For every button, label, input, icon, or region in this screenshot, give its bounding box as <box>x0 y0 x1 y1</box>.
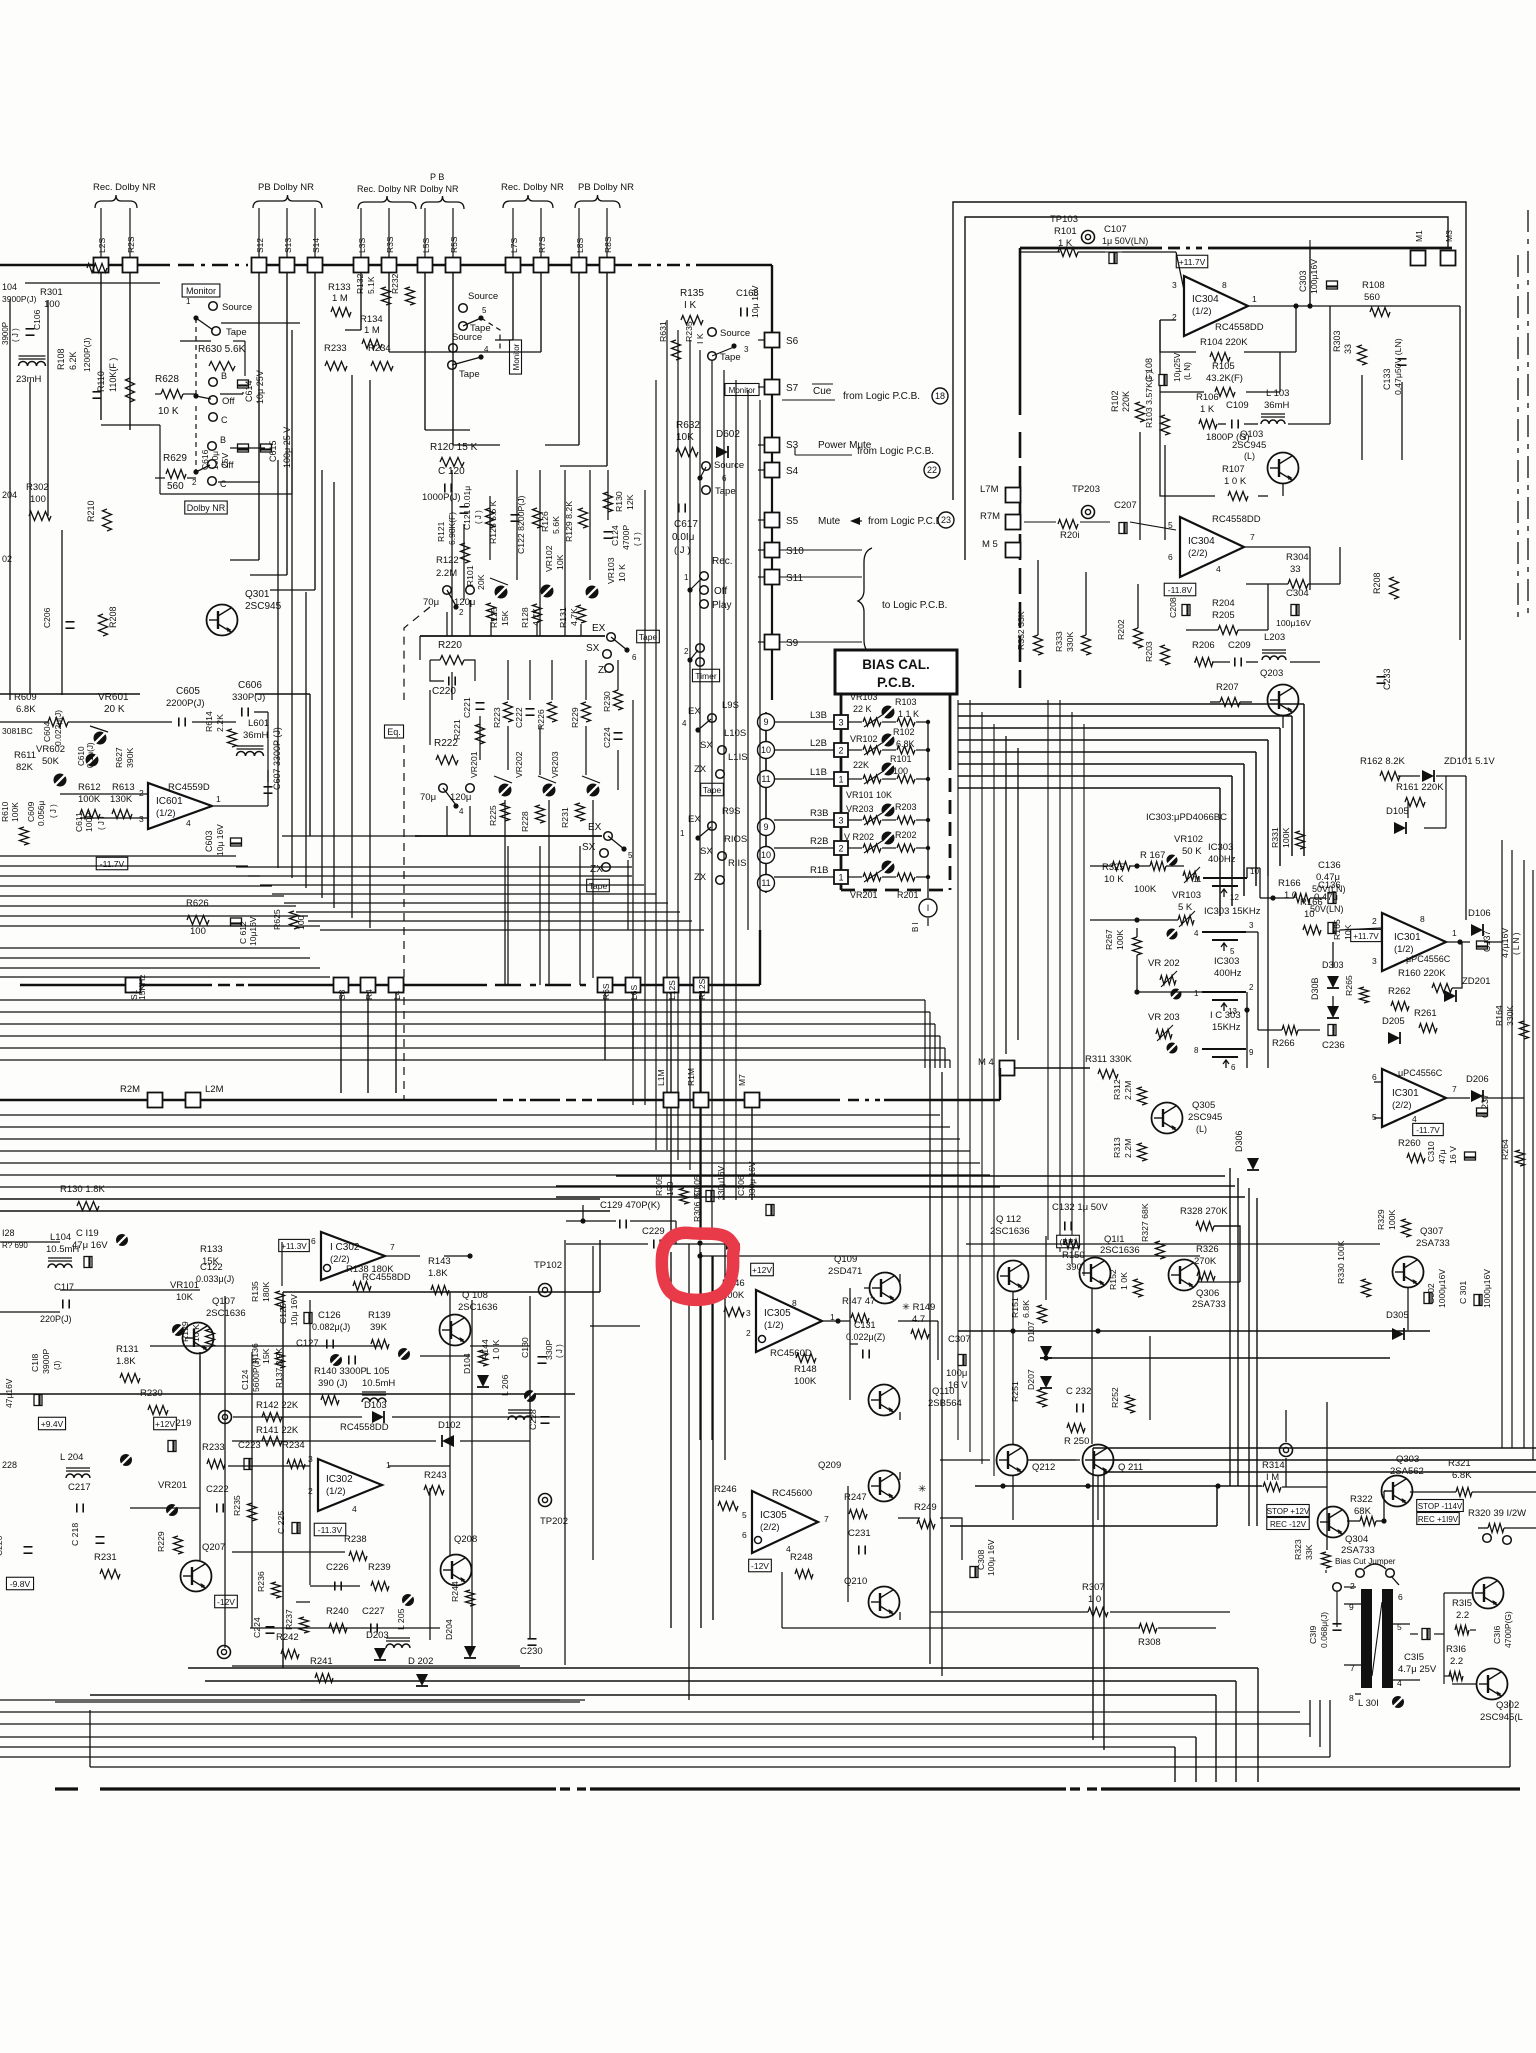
svg-text:Dolby NR: Dolby NR <box>420 184 459 194</box>
svg-text:R139: R139 <box>368 1310 391 1321</box>
svg-text:8: 8 <box>1194 1046 1199 1055</box>
svg-text:2SC945: 2SC945 <box>1188 1112 1222 1123</box>
svg-text:4.7: 4.7 <box>912 1314 925 1325</box>
svg-text:R5S: R5S <box>449 236 459 253</box>
transistor Q111 <box>1080 1258 1111 1289</box>
svg-text:L5S: L5S <box>421 238 431 253</box>
svg-text:4700P(G): 4700P(G) <box>1503 1611 1513 1648</box>
wire eq bus1 to eq bus2 <box>419 636 421 660</box>
wire q2xx emitter bus <box>975 1485 1262 1487</box>
svg-text:M 4: M 4 <box>978 1057 994 1068</box>
svg-text:3: 3 <box>838 816 843 826</box>
svg-text:P B: P B <box>430 172 444 182</box>
wire l9s col <box>765 712 767 893</box>
svg-text:330K: 330K <box>1065 632 1075 652</box>
resistor R row R1B <box>897 873 915 881</box>
capacitor C615 <box>261 444 272 452</box>
svg-text:Cue: Cue <box>813 386 832 397</box>
svg-text:L2S: L2S <box>97 238 107 253</box>
svg-text:( J ): ( J ) <box>474 510 483 524</box>
opamp IC304a <box>1184 276 1248 336</box>
svg-text:100μ16V: 100μ16V <box>1276 618 1311 628</box>
analog switch 3 <box>1202 991 1246 993</box>
wire stub L2S <box>100 208 102 257</box>
opamp IC304b <box>1180 517 1244 577</box>
svg-text:R239: R239 <box>368 1562 391 1573</box>
svg-text:I K: I K <box>684 300 697 311</box>
switch connector R2S <box>123 258 138 273</box>
wire bus row1 <box>20 984 212 986</box>
switch connector M4 <box>1000 1061 1015 1076</box>
wire ic601 out <box>214 805 268 807</box>
svg-text:IC305: IC305 <box>764 1308 791 1319</box>
svg-text:3: 3 <box>1249 921 1254 930</box>
svg-text:R135: R135 <box>250 1281 260 1302</box>
svg-text:R105: R105 <box>1212 361 1235 372</box>
wire r142 row <box>233 1416 362 1418</box>
svg-text:33K: 33K <box>1304 1544 1314 1560</box>
svg-text:6.8K: 6.8K <box>1021 1300 1031 1318</box>
wire right edge dash vertical 2 <box>1517 255 1519 620</box>
svg-text:R630 5.6K: R630 5.6K <box>198 344 246 355</box>
svg-text:R222: R222 <box>434 738 458 749</box>
switch connector S5 <box>765 513 780 528</box>
svg-text:R311 330K: R311 330K <box>1085 1054 1132 1065</box>
svg-text:C124: C124 <box>240 1369 250 1390</box>
svg-text:M3: M3 <box>1444 230 1454 242</box>
svg-text:(L N): (L N) <box>1183 362 1192 380</box>
box -11.7V ic601 <box>96 857 128 870</box>
svg-text:C605: C605 <box>176 686 200 697</box>
svg-text:2.2M: 2.2M <box>1123 1139 1133 1158</box>
svg-text:Q306: Q306 <box>1196 1288 1219 1299</box>
svg-text:R312: R312 <box>1112 1079 1122 1100</box>
svg-text:Tape: Tape <box>459 369 480 380</box>
pot VR row L2B <box>863 746 881 754</box>
svg-text:R102: R102 <box>893 727 915 737</box>
svg-text:Source: Source <box>720 328 750 339</box>
svg-text:(1/2): (1/2) <box>764 1320 784 1331</box>
svg-text:(2/2): (2/2) <box>1188 548 1208 559</box>
switch connector L5S <box>418 258 433 273</box>
svg-text:C 218: C 218 <box>70 1523 80 1546</box>
svg-text:STOP +12V: STOP +12V <box>1267 1507 1310 1516</box>
svg-text:0.47μ: 0.47μ <box>1314 892 1338 903</box>
wire ic304a fb <box>1100 251 1160 253</box>
svg-text:5.6K: 5.6K <box>551 516 561 534</box>
wire right bus vertical <box>1019 248 1022 415</box>
wire bus row1 corner <box>759 930 761 985</box>
svg-text:560: 560 <box>167 481 184 492</box>
wire midleft verticals <box>277 460 279 868</box>
svg-text:10μ 16V: 10μ 16V <box>750 285 760 318</box>
svg-text:Source: Source <box>468 291 498 302</box>
svg-text:R232: R232 <box>390 273 400 294</box>
svg-text:1000P(J): 1000P(J) <box>422 492 461 503</box>
svg-text:2: 2 <box>746 1328 751 1338</box>
svg-text:8: 8 <box>1349 1693 1354 1703</box>
svg-text:Q304: Q304 <box>1345 1534 1368 1545</box>
svg-text:L7S: L7S <box>509 238 519 253</box>
svg-text:47μ16V: 47μ16V <box>4 1378 14 1408</box>
svg-text:R266: R266 <box>1272 1038 1295 1049</box>
svg-text:-12V: -12V <box>751 1561 769 1571</box>
capacitor C308 <box>970 1567 978 1578</box>
svg-text:1: 1 <box>1452 928 1457 938</box>
svg-text:S14: S14 <box>311 238 321 253</box>
svg-text:C129 470P(K): C129 470P(K) <box>600 1200 660 1211</box>
svg-text:IC305: IC305 <box>760 1510 787 1521</box>
svg-text:D103: D103 <box>364 1400 387 1411</box>
svg-text:S7: S7 <box>786 383 799 394</box>
svg-text:Monitor: Monitor <box>512 343 521 370</box>
svg-text:R243: R243 <box>424 1470 447 1481</box>
svg-text:C: C <box>220 479 227 489</box>
svg-text:S6: S6 <box>786 336 799 347</box>
svg-text:6: 6 <box>632 653 637 662</box>
svg-text:C126: C126 <box>318 1310 341 1321</box>
svg-text:330μ16V: 330μ16V <box>716 1165 726 1200</box>
svg-text:Tape: Tape <box>589 881 608 891</box>
switch circle 9 <box>758 714 775 731</box>
wire bus row2 <box>0 1099 497 1101</box>
svg-text:R237: R237 <box>284 1609 294 1630</box>
svg-text:R104 220K: R104 220K <box>1200 337 1248 348</box>
svg-text:Rec.: Rec. <box>712 556 733 567</box>
svg-text:C1I8: C1I8 <box>30 1353 40 1372</box>
svg-text:+11.3V: +11.3V <box>281 1242 307 1251</box>
svg-text:Rec. Dolby NR: Rec. Dolby NR <box>501 182 564 193</box>
svg-text:R330 100K: R330 100K <box>1336 1240 1346 1284</box>
svg-text:from Logic P.C.B.: from Logic P.C.B. <box>857 446 934 457</box>
svg-text:1 K: 1 K <box>1200 404 1215 415</box>
capacitor C617 <box>678 504 680 513</box>
wire bottom harness b <box>0 1736 1196 1738</box>
svg-text:S4: S4 <box>786 466 799 477</box>
svg-text:L12S: L12S <box>667 980 677 1000</box>
box +12V left <box>154 1417 177 1430</box>
svg-text:16 V: 16 V <box>1448 1146 1458 1164</box>
wire mesh ic305 <box>849 1288 851 1400</box>
svg-text:R103 3.57K(F): R103 3.57K(F) <box>1144 371 1154 428</box>
svg-text:Q107: Q107 <box>212 1296 235 1307</box>
svg-text:Play: Play <box>712 600 731 611</box>
switch connector M7 <box>745 1093 760 1108</box>
svg-text:S9: S9 <box>786 638 799 649</box>
svg-text:6: 6 <box>742 1530 747 1540</box>
capacitor C614 <box>238 380 249 388</box>
svg-text:1: 1 <box>838 775 843 785</box>
bias connector L2B <box>834 743 848 757</box>
svg-text:R234: R234 <box>368 343 391 354</box>
svg-text:Q109: Q109 <box>834 1254 857 1265</box>
switch connector L12S <box>664 978 679 993</box>
switch connector L6S <box>626 978 641 993</box>
wire right mid verticals <box>1303 704 1305 856</box>
wire q303 out <box>1410 1491 1456 1493</box>
svg-text:Mute: Mute <box>818 516 841 527</box>
svg-text:VR202: VR202 <box>514 751 524 778</box>
svg-text:R133: R133 <box>328 282 351 293</box>
transistor Q305 <box>1152 1103 1183 1134</box>
svg-text:R231: R231 <box>560 807 570 828</box>
svg-text:C614: C614 <box>244 380 254 402</box>
svg-text:VR103: VR103 <box>1172 890 1201 901</box>
svg-text:B: B <box>220 435 226 445</box>
svg-text:R260: R260 <box>1398 1138 1421 1149</box>
svg-text:S5: S5 <box>786 516 799 527</box>
svg-text:to Logic P.C.B.: to Logic P.C.B. <box>882 600 947 611</box>
svg-text:6: 6 <box>1168 552 1173 562</box>
svg-text:R202: R202 <box>1116 619 1126 640</box>
svg-text:Eq.: Eq. <box>387 727 401 737</box>
switch connector L2M <box>186 1093 201 1108</box>
box Tape row1 <box>637 630 660 643</box>
svg-text:D206: D206 <box>1466 1074 1489 1085</box>
svg-text:100K: 100K <box>1134 884 1157 895</box>
pot resistor vr102 <box>1183 872 1199 881</box>
svg-text:I: I <box>927 903 930 913</box>
svg-text:C3I9: C3I9 <box>1308 1625 1318 1644</box>
wire ic601 nets <box>0 721 48 723</box>
svg-text:VR101: VR101 <box>170 1280 199 1291</box>
box +11.7V ic304 <box>1176 255 1208 268</box>
svg-text:7: 7 <box>1250 532 1255 542</box>
svg-text:2SC1636: 2SC1636 <box>206 1308 246 1319</box>
svg-text:R201: R201 <box>897 890 919 900</box>
transistor Q108 <box>440 1315 471 1346</box>
box +11.7V ic301 <box>1351 929 1382 941</box>
svg-text:M 5: M 5 <box>982 539 998 550</box>
svg-text:R121: R121 <box>436 521 446 542</box>
wire sw3 left <box>1137 991 1202 993</box>
svg-text:Source: Source <box>714 460 744 471</box>
svg-text:( J ): ( J ) <box>674 545 690 556</box>
svg-text:0.022μ(J): 0.022μ(J) <box>53 710 63 746</box>
svg-text:C1I7: C1I7 <box>54 1282 74 1293</box>
opamp IC305b <box>752 1491 818 1553</box>
svg-text:20K: 20K <box>476 574 486 590</box>
svg-text:R130: R130 <box>614 491 624 512</box>
svg-text:( J ): ( J ) <box>633 532 642 546</box>
svg-text:-11.3V: -11.3V <box>318 1525 343 1535</box>
svg-text:R101: R101 <box>1054 226 1077 237</box>
svg-text:C107: C107 <box>1104 224 1127 235</box>
wire bias row L1B <box>774 778 834 780</box>
wire mesh lowerleft <box>150 1345 380 1347</box>
transistor Q207 <box>181 1561 212 1592</box>
svg-text:390 (J): 390 (J) <box>318 1378 348 1389</box>
svg-text:R152: R152 <box>1108 1269 1118 1290</box>
svg-text:IC303:μPD4066BC: IC303:μPD4066BC <box>1146 812 1227 823</box>
transistor Q306 <box>1169 1260 1200 1291</box>
svg-text:7: 7 <box>1452 1084 1457 1094</box>
svg-text:RC4559D: RC4559D <box>168 782 210 793</box>
pot VR row L1B <box>863 775 881 783</box>
svg-text:4700P: 4700P <box>621 525 631 550</box>
svg-text:RI47 47: RI47 47 <box>842 1296 875 1307</box>
svg-text:R303: R303 <box>1332 330 1342 352</box>
svg-text:Monitor: Monitor <box>729 386 756 395</box>
svg-text:I M: I M <box>1266 1472 1279 1483</box>
switch connector R8S <box>600 258 615 273</box>
svg-text:10: 10 <box>761 850 771 860</box>
svg-text:2SA733: 2SA733 <box>1192 1299 1226 1310</box>
svg-text:Off: Off <box>221 460 234 471</box>
svg-text:R236: R236 <box>256 1571 266 1592</box>
box -12V left <box>215 1595 238 1608</box>
svg-text:1.8K: 1.8K <box>428 1268 448 1279</box>
svg-text:-12V: -12V <box>217 1597 235 1607</box>
svg-text:R141 22K: R141 22K <box>256 1425 299 1436</box>
svg-text:8: 8 <box>1222 280 1227 290</box>
svg-text:Off: Off <box>222 396 235 407</box>
svg-text:C207: C207 <box>1114 500 1137 511</box>
svg-text:L7M: L7M <box>980 484 999 495</box>
svg-text:Q207: Q207 <box>202 1542 225 1553</box>
svg-text:D204: D204 <box>444 1619 454 1640</box>
svg-text:23: 23 <box>941 515 951 525</box>
wire y1331 bus <box>958 1330 1430 1332</box>
svg-text:100K: 100K <box>78 794 101 805</box>
wire bias row R2B <box>774 847 834 849</box>
svg-text:3: 3 <box>139 814 144 824</box>
transistor Q301b <box>1473 1578 1504 1609</box>
svg-text:4.7K: 4.7K <box>569 608 579 626</box>
svg-text:R322: R322 <box>1350 1494 1373 1505</box>
svg-text:22: 22 <box>927 465 937 475</box>
svg-text:43.2K(F): 43.2K(F) <box>1206 373 1243 384</box>
svg-text:Q212: Q212 <box>1032 1462 1055 1473</box>
svg-text:L1M: L1M <box>656 1069 666 1086</box>
svg-text:2SA733: 2SA733 <box>1341 1545 1375 1556</box>
circle B1 <box>919 899 937 917</box>
wire right edge dash vertical <box>1527 210 1529 620</box>
svg-text:18: 18 <box>935 391 945 401</box>
switch d source <box>702 462 711 471</box>
svg-text:C611: C611 <box>74 812 84 832</box>
wire stub S12 <box>258 208 260 257</box>
wire stub S14 <box>314 208 316 257</box>
box REC+119V <box>1417 1513 1459 1525</box>
svg-text:8: 8 <box>1420 914 1425 924</box>
svg-text:6: 6 <box>1372 1072 1377 1082</box>
svg-text:Q301: Q301 <box>245 589 270 600</box>
wire sw1 out <box>1247 868 1260 878</box>
svg-text:L601: L601 <box>248 718 269 729</box>
switch bias jumper <box>1356 1569 1365 1578</box>
svg-text:D102: D102 <box>438 1420 461 1431</box>
svg-text:R162 8.2K: R162 8.2K <box>1360 756 1406 767</box>
svg-text:4: 4 <box>1194 929 1199 938</box>
svg-text:VR102: VR102 <box>1174 834 1203 845</box>
svg-text:R12S: R12S <box>697 978 707 1000</box>
wire long mid verticals <box>670 992 672 1093</box>
transformer winding slash <box>1372 1602 1382 1676</box>
svg-text:120μ: 120μ <box>454 597 475 608</box>
svg-text:✳: ✳ <box>918 1484 926 1495</box>
svg-text:R612: R612 <box>78 782 101 793</box>
svg-text:EX: EX <box>588 822 602 833</box>
svg-text:228: 228 <box>2 1460 17 1470</box>
svg-text:( J ): ( J ) <box>555 1344 564 1358</box>
svg-text:C230: C230 <box>520 1646 543 1657</box>
svg-text:-9.8V: -9.8V <box>10 1579 31 1589</box>
wire stub R7S <box>540 208 542 257</box>
svg-text:R135: R135 <box>680 288 704 299</box>
capacitor C220 <box>448 677 450 686</box>
switch timer <box>696 644 705 653</box>
wire S column <box>771 347 773 700</box>
svg-text:2: 2 <box>838 844 843 854</box>
svg-text:R613: R613 <box>112 782 135 793</box>
wire m4 bus <box>770 1099 840 1101</box>
switch circle 11 <box>758 771 775 788</box>
wire abovebus1 horizontals <box>0 947 300 949</box>
svg-text:R265: R265 <box>1344 975 1354 996</box>
svg-text:70μ: 70μ <box>423 597 439 608</box>
box Tape l9s <box>701 783 724 796</box>
svg-text:L2M: L2M <box>205 1084 224 1095</box>
resistor R row L2B <box>897 746 915 754</box>
dashed eq boundary <box>403 745 405 1100</box>
svg-text:Monitor: Monitor <box>186 286 216 296</box>
svg-text:R242: R242 <box>276 1632 299 1643</box>
switch connector S10 <box>765 543 780 558</box>
svg-text:VR201: VR201 <box>158 1480 187 1491</box>
svg-text:μPC4556C: μPC4556C <box>1398 1068 1443 1078</box>
svg-text:S12: S12 <box>255 238 265 253</box>
wire stub R3S <box>388 208 390 257</box>
switch d tape <box>702 486 711 495</box>
svg-text:4: 4 <box>352 1504 357 1514</box>
svg-text:S10: S10 <box>786 546 804 557</box>
svg-text:R229: R229 <box>156 1531 166 1552</box>
svg-text:C231: C231 <box>848 1528 871 1539</box>
svg-text:R 250: R 250 <box>1064 1436 1089 1447</box>
transistor Q212 <box>997 1445 1028 1476</box>
svg-text:2SC945(L: 2SC945(L <box>1480 1712 1523 1723</box>
svg-text:10K: 10K <box>176 1292 194 1303</box>
svg-text:R107: R107 <box>1222 464 1245 475</box>
box STOP+12V <box>1267 1505 1310 1517</box>
svg-text:9: 9 <box>763 717 768 727</box>
svg-text:7: 7 <box>390 1242 395 1252</box>
svg-text:R313: R313 <box>1112 1137 1122 1158</box>
svg-text:1: 1 <box>1194 989 1199 998</box>
svg-text:C121 0.01μ: C121 0.01μ <box>462 486 472 530</box>
wire harness staircase drops <box>1257 1668 1259 1782</box>
svg-text:R2B: R2B <box>810 836 828 847</box>
svg-text:C310: C310 <box>1426 1141 1436 1162</box>
svg-text:Q110: Q110 <box>932 1386 955 1397</box>
svg-text:Dolby NR: Dolby NR <box>187 503 226 513</box>
svg-text:2: 2 <box>1372 916 1377 926</box>
switch connector M5 <box>1006 543 1021 558</box>
svg-text:100μ 16V: 100μ 16V <box>986 1539 996 1576</box>
wire c229 line <box>566 1243 648 1245</box>
svg-text:SX: SX <box>586 643 600 654</box>
svg-text:(1/2): (1/2) <box>326 1486 346 1497</box>
svg-text:R625: R625 <box>272 909 282 930</box>
svg-text:100K: 100K <box>1115 930 1125 950</box>
svg-text:R246: R246 <box>714 1484 737 1495</box>
svg-text:C220: C220 <box>432 686 456 697</box>
svg-text:C 612: C 612 <box>238 921 248 944</box>
switch connector R5S <box>446 258 461 273</box>
pad b <box>218 1646 231 1659</box>
box -11.7V ic301b <box>1413 1123 1444 1135</box>
